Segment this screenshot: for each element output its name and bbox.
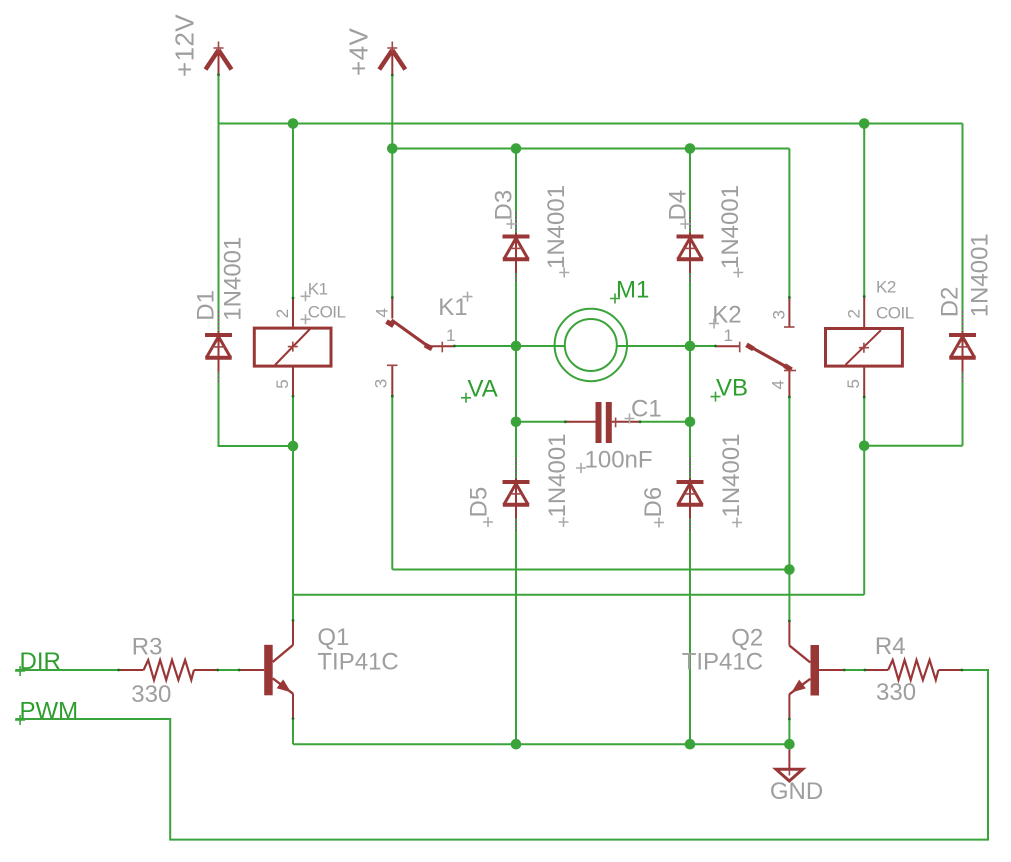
svg-text:K2: K2 (876, 278, 896, 297)
diode D1 (205, 311, 232, 384)
wire K1 coil column lower (292, 396, 294, 595)
svg-text:1N4001: 1N4001 (219, 237, 246, 321)
svg-text:3: 3 (372, 379, 391, 388)
node emitter rail / D6 (685, 739, 696, 750)
pin 2 K2 coil (845, 310, 864, 319)
wire K2 switch column lower (788, 397, 790, 570)
value R4 330 (876, 679, 916, 706)
svg-text:VA: VA (468, 376, 498, 403)
label Q1 (317, 624, 349, 651)
supply +12V (206, 42, 232, 75)
label C1 (625, 396, 662, 424)
wire K2 coil column lower (863, 397, 865, 595)
wire K1 switch column lower (391, 396, 393, 569)
svg-text:+4V: +4V (343, 28, 373, 76)
svg-text:D6: D6 (640, 487, 667, 518)
wire +4V stem (391, 75, 393, 149)
diode D2 (949, 311, 976, 384)
svg-text:PWM: PWM (20, 698, 79, 725)
node VA motor row (511, 341, 522, 352)
diode D5 (503, 458, 530, 533)
label K1 COIL (301, 280, 346, 325)
resistor R3 (119, 660, 218, 680)
wire D5 column (515, 422, 517, 744)
svg-text:330: 330 (131, 681, 171, 708)
switch K2 (716, 298, 797, 398)
pin 2 K1 coil (273, 309, 292, 318)
label PWM (15, 698, 78, 726)
label K2 COIL (876, 278, 914, 323)
node +4V rail / K1 switch (387, 143, 398, 154)
svg-text:VB: VB (716, 375, 748, 402)
svg-text:R3: R3 (132, 634, 163, 661)
svg-text:TIP41C: TIP41C (682, 649, 763, 676)
svg-text:C1: C1 (631, 396, 662, 423)
node VA C1 rail (511, 417, 522, 428)
pin 4 K2 switch (768, 381, 787, 390)
label D5 (466, 487, 494, 527)
pin end dots (117, 73, 963, 720)
svg-text:COIL: COIL (876, 304, 914, 323)
value D1 1N4001 (219, 237, 246, 321)
node emitter rail / GND (784, 739, 795, 750)
label R3 (132, 634, 163, 661)
wire motor row (455, 345, 716, 347)
wire Q1 collector stub (292, 595, 294, 621)
svg-text:3: 3 (769, 311, 788, 320)
svg-text:D2: D2 (937, 287, 964, 318)
label GND (770, 778, 823, 805)
svg-text:2: 2 (273, 309, 292, 318)
wire inner +4V rail (392, 148, 789, 150)
resistor R4 (865, 660, 962, 680)
svg-text:TIP41C: TIP41C (317, 648, 398, 675)
svg-text:1N4001: 1N4001 (543, 185, 570, 269)
wire emitter rail (293, 743, 789, 745)
svg-text:330: 330 (876, 679, 916, 706)
value Q2 TIP41C (682, 649, 763, 676)
wire lower outer rail (293, 594, 864, 596)
label D4 (664, 190, 691, 229)
svg-text:K1: K1 (438, 294, 467, 321)
value D5 1N4001 (544, 433, 571, 527)
wire D2 column (962, 124, 964, 446)
wire VB column (689, 346, 691, 422)
node VB C1 rail (685, 417, 696, 428)
svg-text:D5: D5 (466, 487, 493, 518)
capacitor C1 (565, 402, 640, 443)
relay coil K1 (254, 298, 331, 396)
svg-text:4: 4 (768, 381, 787, 390)
node +4V rail / D3 (511, 143, 522, 154)
label +4V (343, 28, 373, 76)
wire R3 to Q1 base (218, 669, 240, 671)
label D3 (490, 190, 517, 229)
svg-text:4: 4 (372, 309, 391, 318)
node D2 K2 coil (859, 441, 870, 452)
pin 3 K2 switch (769, 311, 788, 320)
wire VA rail to C1 (516, 421, 565, 423)
relay coil K2 (826, 297, 903, 398)
value D2 1N4001 (967, 233, 994, 317)
label D6 (640, 487, 667, 528)
svg-text:2: 2 (845, 310, 864, 319)
svg-text:1: 1 (724, 326, 733, 345)
svg-text:K2: K2 (712, 302, 741, 329)
label M1 (610, 277, 649, 304)
svg-text:1N4001: 1N4001 (718, 433, 745, 517)
svg-text:D1: D1 (193, 290, 220, 321)
svg-text:Q1: Q1 (317, 624, 349, 651)
node lower inner rail / Q2 collector (784, 564, 795, 575)
wire Q2 emitter stub (788, 719, 790, 744)
svg-text:R4: R4 (875, 633, 906, 660)
wire D6 column (689, 422, 691, 744)
transistor Q1 (239, 621, 293, 719)
wire lower inner rail (392, 569, 789, 571)
wire K1 coil column upper (292, 124, 294, 299)
diode D6 (677, 458, 704, 533)
value Q1 TIP41C (317, 648, 398, 675)
wire Q2 collector stub (788, 570, 790, 622)
svg-text:DIR: DIR (20, 648, 61, 675)
pin 3 K1 switch (372, 379, 391, 388)
diode D3 (503, 213, 530, 284)
wire VA column (515, 346, 517, 422)
svg-text:5: 5 (273, 380, 292, 389)
value R3 330 (131, 681, 171, 708)
wire Q2 base to R4 (844, 669, 865, 671)
value C1 100nF (576, 447, 653, 474)
supply +4V (379, 42, 405, 76)
svg-text:COIL: COIL (308, 303, 346, 322)
svg-text:D3: D3 (490, 190, 517, 221)
svg-text:+12V: +12V (170, 14, 200, 77)
wire D3 column (515, 149, 517, 347)
label +12V (170, 14, 200, 77)
wire right node rail (864, 445, 962, 447)
switch K1 (387, 298, 455, 397)
svg-text:GND: GND (770, 778, 823, 805)
node +4V rail / D4 (685, 143, 696, 154)
svg-text:Q2: Q2 (731, 624, 763, 651)
node VB motor row (685, 341, 696, 352)
node emitter rail / D5 (511, 739, 522, 750)
label K1 switch (438, 292, 472, 321)
transistor Q2 (789, 621, 844, 719)
value D3 1N4001 (543, 185, 570, 278)
svg-text:1N4001: 1N4001 (544, 433, 571, 517)
label VB (711, 375, 749, 402)
diode D4 (677, 213, 704, 284)
pin 5 K1 coil (273, 380, 292, 389)
label VA (461, 376, 498, 403)
svg-text:1: 1 (446, 326, 455, 345)
svg-text:1N4001: 1N4001 (967, 233, 994, 317)
wire D4 column (689, 149, 691, 347)
wire D1 bottom to node (219, 361, 294, 447)
wire K2 coil column upper (863, 124, 865, 297)
label Q2 (731, 624, 763, 651)
wire top +12V rail (219, 123, 963, 125)
pin 1 K2 switch (724, 326, 733, 345)
svg-text:K1: K1 (308, 280, 328, 299)
label DIR (15, 648, 61, 676)
node top rail / K1 coil (288, 118, 299, 129)
wire C1 to VB rail (640, 421, 690, 423)
wire Q1 emitter stub (292, 719, 294, 745)
value D6 1N4001 (718, 433, 745, 527)
wire +12V stem down to D1 (218, 75, 220, 335)
pin 1 K1 switch (446, 326, 455, 345)
wire DIR input (15, 669, 118, 671)
motor M1 (555, 309, 627, 381)
svg-text:100nF: 100nF (585, 447, 653, 474)
svg-text:1N4001: 1N4001 (717, 185, 744, 269)
wire K1 switch column upper (391, 149, 393, 298)
wire K2 switch column upper (788, 149, 790, 298)
pin 4 K1 switch (372, 309, 391, 318)
label D2 (937, 287, 964, 318)
value D4 1N4001 (717, 185, 744, 278)
label R4 (875, 633, 906, 660)
pin 5 K2 coil (844, 380, 863, 389)
svg-text:5: 5 (844, 380, 863, 389)
svg-text:D4: D4 (664, 190, 691, 221)
ground symbol (776, 750, 803, 782)
svg-text:M1: M1 (616, 277, 649, 304)
label K2 switch (709, 302, 742, 329)
label D1 (193, 290, 220, 321)
node top rail / K2 coil (859, 118, 870, 129)
wire PWM input and bottom loop (15, 670, 988, 840)
node D1 K1 coil (288, 441, 299, 452)
